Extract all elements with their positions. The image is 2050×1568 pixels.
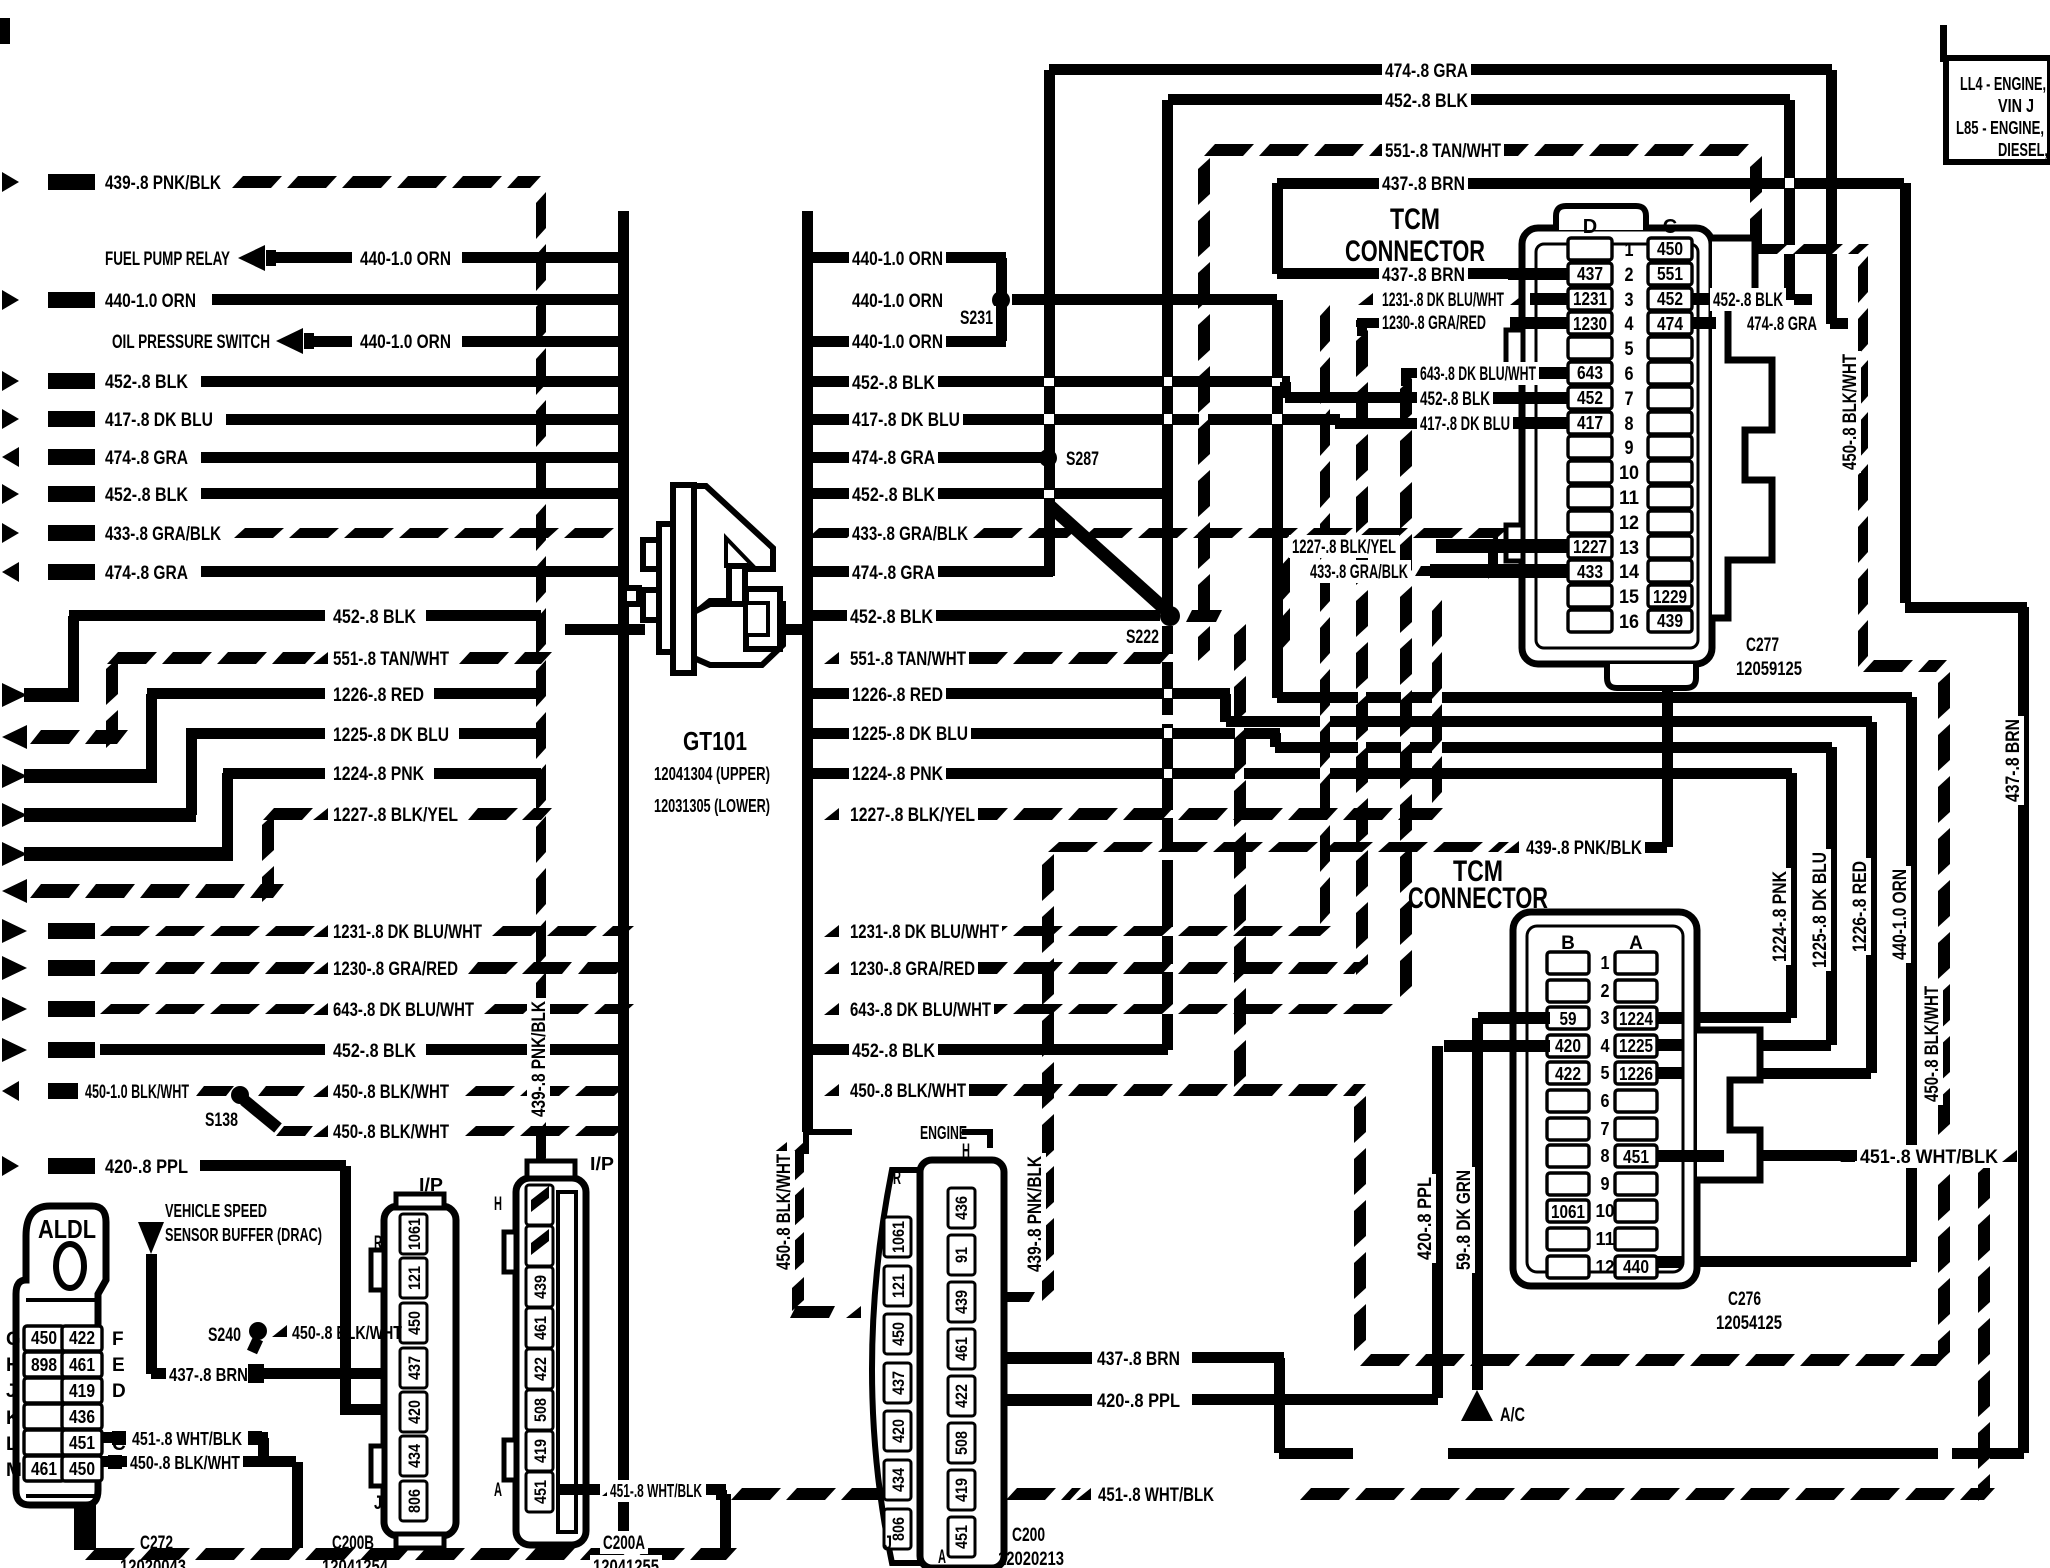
svg-text:5: 5 [1601,1063,1610,1083]
svg-text:A/C: A/C [1500,1405,1525,1426]
svg-text:439: 439 [531,1275,550,1299]
svg-text:417: 417 [1577,413,1603,433]
svg-text:452-.8 BLK: 452-.8 BLK [852,1041,935,1062]
svg-text:1226-.8 RED: 1226-.8 RED [852,685,943,706]
svg-text:461: 461 [952,1337,971,1361]
svg-text:11: 11 [1619,488,1639,509]
svg-text:I/P: I/P [590,1154,614,1174]
svg-text:474-.8 GRA: 474-.8 GRA [105,448,188,469]
svg-text:2: 2 [1625,265,1634,286]
svg-text:E: E [112,1355,125,1376]
svg-text:1061: 1061 [889,1221,908,1253]
svg-text:437: 437 [405,1356,424,1380]
svg-text:440-1.0 ORN: 440-1.0 ORN [360,249,451,270]
svg-text:R: R [893,1168,901,1189]
svg-text:452: 452 [1657,289,1683,309]
svg-text:433-.8 GRA/BLK: 433-.8 GRA/BLK [1310,562,1408,583]
svg-text:440-1.0 ORN: 440-1.0 ORN [1890,869,1911,960]
svg-text:VIN J: VIN J [1998,96,2034,116]
svg-text:440-1.0 ORN: 440-1.0 ORN [105,291,196,312]
svg-text:451-.8 WHT/BLK: 451-.8 WHT/BLK [1098,1485,1214,1506]
svg-text:450-.8 BLK/WHT: 450-.8 BLK/WHT [130,1453,240,1473]
svg-text:450: 450 [31,1328,57,1348]
svg-text:1230-.8 GRA/RED: 1230-.8 GRA/RED [1382,313,1486,334]
svg-text:S231: S231 [960,308,993,329]
svg-text:420: 420 [889,1419,908,1443]
svg-text:8: 8 [1625,414,1634,435]
svg-text:1225-.8 DK BLU: 1225-.8 DK BLU [1810,852,1831,968]
svg-text:1225: 1225 [1619,1036,1653,1056]
svg-text:1227-.8 BLK/YEL: 1227-.8 BLK/YEL [1292,537,1396,558]
svg-text:474-.8 GRA: 474-.8 GRA [1385,61,1468,82]
svg-text:422: 422 [1555,1064,1581,1084]
svg-text:12059125: 12059125 [1736,659,1802,680]
svg-text:12041255: 12041255 [593,1557,659,1568]
svg-text:12020043: 12020043 [120,1557,186,1568]
svg-text:13: 13 [1619,538,1639,559]
svg-text:461: 461 [31,1459,57,1479]
svg-text:437: 437 [889,1371,908,1395]
svg-text:OIL PRESSURE SWITCH: OIL PRESSURE SWITCH [112,332,270,353]
svg-text:437-.8 BRN: 437-.8 BRN [1382,265,1465,286]
svg-text:450: 450 [889,1322,908,1346]
svg-text:439-.8 PNK/BLK: 439-.8 PNK/BLK [1025,1156,1046,1272]
svg-text:420-.8 PPL: 420-.8 PPL [105,1157,188,1178]
svg-text:461: 461 [69,1355,95,1375]
svg-text:417-.8 DK BLU: 417-.8 DK BLU [105,410,213,431]
svg-text:G: G [6,1329,21,1350]
svg-text:L85 - ENGINE,: L85 - ENGINE, [1956,118,2044,138]
svg-text:420: 420 [405,1400,424,1424]
svg-text:1227-.8 BLK/YEL: 1227-.8 BLK/YEL [850,805,975,826]
svg-text:439-.8 PNK/BLK: 439-.8 PNK/BLK [529,1001,550,1117]
svg-text:5: 5 [1625,339,1634,360]
svg-text:437-.8 BRN: 437-.8 BRN [169,1365,248,1385]
svg-text:450-.8 BLK/WHT: 450-.8 BLK/WHT [333,1082,449,1103]
svg-text:450: 450 [1657,239,1683,259]
svg-text:121: 121 [889,1274,908,1298]
svg-text:437-.8 BRN: 437-.8 BRN [2003,719,2024,802]
svg-text:450-.8 BLK/WHT: 450-.8 BLK/WHT [1922,986,1943,1102]
svg-text:D: D [1583,216,1597,238]
svg-text:422: 422 [69,1328,95,1348]
svg-text:436: 436 [952,1196,971,1220]
svg-text:1230: 1230 [1573,314,1607,334]
svg-text:1224-.8 PNK: 1224-.8 PNK [333,764,424,785]
svg-text:1227: 1227 [1573,537,1607,557]
svg-text:1230-.8 GRA/RED: 1230-.8 GRA/RED [333,959,458,980]
svg-text:F: F [112,1329,124,1350]
svg-text:417-.8 DK BLU: 417-.8 DK BLU [1420,414,1510,435]
svg-text:643: 643 [1577,363,1603,383]
svg-text:450-.8 BLK/WHT: 450-.8 BLK/WHT [850,1081,966,1102]
svg-text:12031305 (LOWER): 12031305 (LOWER) [654,796,770,816]
svg-text:FUEL PUMP RELAY: FUEL PUMP RELAY [105,249,230,270]
svg-text:451: 451 [1623,1147,1649,1167]
svg-text:451: 451 [952,1525,971,1549]
svg-text:474-.8 GRA: 474-.8 GRA [105,563,188,584]
svg-text:452-.8 BLK: 452-.8 BLK [1713,290,1783,311]
svg-text:452-.8 BLK: 452-.8 BLK [1420,389,1490,410]
svg-text:6: 6 [1601,1091,1610,1111]
svg-text:H: H [962,1141,970,1162]
svg-text:7: 7 [1601,1119,1610,1139]
svg-text:422: 422 [952,1384,971,1408]
svg-text:420-.8 PPL: 420-.8 PPL [1415,1177,1436,1260]
svg-text:452-.8 BLK: 452-.8 BLK [852,485,935,506]
svg-text:437: 437 [1577,264,1603,284]
svg-text:59-.8 DK GRN: 59-.8 DK GRN [1454,1170,1475,1270]
svg-text:10: 10 [1596,1201,1615,1221]
svg-text:450-.8 BLK/WHT: 450-.8 BLK/WHT [1840,354,1861,470]
svg-text:474-.8 GRA: 474-.8 GRA [852,448,935,469]
svg-text:I/P: I/P [419,1175,443,1195]
svg-text:1224: 1224 [1619,1009,1653,1029]
svg-text:417-.8 DK BLU: 417-.8 DK BLU [852,410,960,431]
svg-text:9: 9 [1625,438,1634,459]
svg-text:LL4 - ENGINE,: LL4 - ENGINE, [1960,74,2046,94]
svg-text:643-.8 DK BLU/WHT: 643-.8 DK BLU/WHT [1420,364,1536,385]
svg-text:1224-.8 PNK: 1224-.8 PNK [1770,871,1791,962]
svg-text:S287: S287 [1066,449,1099,470]
svg-text:898: 898 [31,1355,57,1375]
svg-text:551-.8 TAN/WHT: 551-.8 TAN/WHT [1385,141,1501,162]
svg-text:C272: C272 [140,1533,173,1554]
svg-text:434: 434 [889,1468,908,1492]
svg-text:440-1.0 ORN: 440-1.0 ORN [852,332,943,353]
svg-text:11: 11 [1596,1229,1615,1249]
svg-text:450: 450 [69,1459,95,1479]
svg-text:J: J [884,1533,892,1554]
svg-text:16: 16 [1619,612,1639,633]
svg-text:451: 451 [531,1480,550,1504]
svg-text:1231: 1231 [1573,289,1607,309]
svg-text:2: 2 [1601,981,1610,1001]
svg-text:1231-.8 DK BLU/WHT: 1231-.8 DK BLU/WHT [1382,290,1504,311]
svg-text:S240: S240 [208,1325,241,1346]
svg-text:434: 434 [405,1444,424,1468]
svg-text:436: 436 [69,1407,95,1427]
svg-text:474-.8 GRA: 474-.8 GRA [852,563,935,584]
svg-text:551-.8 TAN/WHT: 551-.8 TAN/WHT [850,649,966,670]
svg-text:GT101: GT101 [683,726,747,756]
svg-text:1061: 1061 [405,1218,424,1250]
svg-text:59: 59 [1560,1009,1577,1029]
svg-text:643-.8 DK BLU/WHT: 643-.8 DK BLU/WHT [850,1000,991,1021]
svg-text:420-.8 PPL: 420-.8 PPL [1097,1391,1180,1412]
svg-text:8: 8 [1601,1146,1610,1166]
svg-text:121: 121 [405,1266,424,1290]
svg-text:C: C [112,1434,126,1455]
svg-text:TCM: TCM [1390,203,1440,236]
svg-text:1226-.8 RED: 1226-.8 RED [333,685,424,706]
svg-text:3: 3 [1601,1008,1610,1028]
svg-text:440-1.0 ORN: 440-1.0 ORN [852,249,943,270]
svg-text:91: 91 [952,1247,971,1263]
svg-text:6: 6 [1625,364,1634,385]
svg-text:1230-.8 GRA/RED: 1230-.8 GRA/RED [850,959,975,980]
svg-text:A: A [938,1547,946,1568]
svg-text:452-.8 BLK: 452-.8 BLK [852,373,935,394]
svg-text:419: 419 [952,1478,971,1502]
svg-text:4: 4 [1601,1036,1610,1056]
svg-text:1227-.8 BLK/YEL: 1227-.8 BLK/YEL [333,805,458,826]
svg-text:9: 9 [1601,1174,1610,1194]
svg-text:C276: C276 [1728,1289,1761,1310]
svg-text:433: 433 [1577,562,1603,582]
svg-text:1225-.8 DK BLU: 1225-.8 DK BLU [852,724,968,745]
svg-text:S138: S138 [205,1110,238,1131]
svg-text:452: 452 [1577,388,1603,408]
svg-text:474: 474 [1657,314,1683,334]
svg-text:L: L [6,1434,18,1455]
svg-text:440: 440 [1623,1257,1649,1277]
svg-text:1229: 1229 [1653,587,1687,607]
svg-text:439-.8 PNK/BLK: 439-.8 PNK/BLK [1526,838,1642,859]
svg-text:1226: 1226 [1619,1064,1653,1084]
svg-text:452-.8 BLK: 452-.8 BLK [105,485,188,506]
svg-text:K: K [6,1408,20,1429]
svg-text:508: 508 [531,1398,550,1422]
svg-text:J: J [374,1493,382,1514]
svg-text:440-1.0 ORN: 440-1.0 ORN [852,291,943,312]
svg-text:H: H [6,1355,20,1376]
svg-text:12041304 (UPPER): 12041304 (UPPER) [654,764,770,784]
svg-text:508: 508 [952,1431,971,1455]
svg-text:420: 420 [1555,1036,1581,1056]
svg-text:H: H [494,1194,502,1215]
svg-text:450: 450 [405,1311,424,1335]
svg-text:437-.8 BRN: 437-.8 BRN [1382,174,1465,195]
svg-text:R: R [374,1233,382,1254]
svg-text:433-.8 GRA/BLK: 433-.8 GRA/BLK [105,524,221,545]
svg-text:643-.8 DK BLU/WHT: 643-.8 DK BLU/WHT [333,1000,474,1021]
svg-text:440-1.0 ORN: 440-1.0 ORN [360,332,451,353]
svg-text:451: 451 [69,1433,95,1453]
svg-text:452-.8 BLK: 452-.8 BLK [105,372,188,393]
svg-text:SENSOR BUFFER (DRAC): SENSOR BUFFER (DRAC) [165,1225,322,1245]
svg-text:1231-.8 DK BLU/WHT: 1231-.8 DK BLU/WHT [850,922,999,943]
svg-text:12020213: 12020213 [998,1549,1064,1568]
svg-text:14: 14 [1619,562,1639,583]
svg-text:419: 419 [531,1439,550,1463]
svg-text:4: 4 [1625,314,1634,335]
svg-text:CONNECTOR: CONNECTOR [1345,235,1485,268]
svg-text:DIESEL,: DIESEL, [1998,140,2048,160]
svg-text:1: 1 [1601,953,1610,973]
svg-text:451-.8 WHT/BLK: 451-.8 WHT/BLK [132,1429,242,1449]
svg-text:10: 10 [1619,463,1639,484]
svg-text:C200B: C200B [332,1533,374,1554]
svg-text:ENGINE: ENGINE [920,1123,967,1143]
svg-text:1231-.8 DK BLU/WHT: 1231-.8 DK BLU/WHT [333,922,482,943]
svg-text:12: 12 [1619,513,1639,534]
svg-text:450-.8 BLK/WHT: 450-.8 BLK/WHT [292,1323,402,1343]
svg-text:VEHICLE SPEED: VEHICLE SPEED [165,1201,267,1221]
svg-text:452-.8 BLK: 452-.8 BLK [333,1041,416,1062]
svg-text:7: 7 [1625,389,1634,410]
svg-text:452-.8 BLK: 452-.8 BLK [333,607,416,628]
svg-text:806: 806 [405,1489,424,1513]
svg-text:439: 439 [1657,611,1683,631]
svg-text:450-1.0 BLK/WHT: 450-1.0 BLK/WHT [85,1082,189,1103]
svg-text:452-.8 BLK: 452-.8 BLK [850,607,933,628]
svg-text:J: J [6,1381,17,1402]
svg-text:474-.8 GRA: 474-.8 GRA [1747,314,1817,335]
svg-text:12: 12 [1596,1257,1615,1277]
svg-text:433-.8 GRA/BLK: 433-.8 GRA/BLK [852,524,968,545]
svg-text:3: 3 [1625,290,1634,311]
svg-text:1224-.8 PNK: 1224-.8 PNK [852,764,943,785]
svg-text:551: 551 [1657,264,1683,284]
svg-text:1225-.8 DK BLU: 1225-.8 DK BLU [333,725,449,746]
svg-text:D: D [112,1381,126,1402]
svg-text:ALDL: ALDL [38,1214,96,1244]
svg-text:439: 439 [952,1290,971,1314]
svg-text:419: 419 [69,1381,95,1401]
svg-text:M: M [6,1460,22,1481]
svg-text:439-.8 PNK/BLK: 439-.8 PNK/BLK [105,173,221,194]
svg-text:451-.8 WHT/BLK: 451-.8 WHT/BLK [610,1481,702,1501]
svg-text:422: 422 [531,1357,550,1381]
svg-text:C277: C277 [1746,635,1779,656]
svg-text:C200A: C200A [603,1533,645,1554]
svg-text:C200: C200 [1012,1525,1045,1546]
svg-text:12054125: 12054125 [1716,1313,1782,1334]
svg-text:461: 461 [531,1316,550,1340]
svg-text:A: A [494,1480,502,1501]
svg-text:451-.8 WHT/BLK: 451-.8 WHT/BLK [1860,1147,1998,1168]
svg-text:C: C [1663,216,1677,238]
svg-text:1061: 1061 [1551,1202,1585,1222]
svg-text:1: 1 [1625,240,1634,261]
svg-text:1226-.8 RED: 1226-.8 RED [1850,861,1871,952]
svg-text:437-.8 BRN: 437-.8 BRN [1097,1349,1180,1370]
svg-text:450-.8 BLK/WHT: 450-.8 BLK/WHT [333,1122,449,1143]
svg-text:CONNECTOR: CONNECTOR [1408,882,1548,915]
svg-text:15: 15 [1619,587,1639,608]
svg-text:450-.8 BLK/WHT: 450-.8 BLK/WHT [774,1154,795,1270]
svg-text:12041254: 12041254 [322,1557,388,1568]
svg-text:551-.8 TAN/WHT: 551-.8 TAN/WHT [333,649,449,670]
svg-text:S222: S222 [1126,627,1159,648]
svg-text:452-.8 BLK: 452-.8 BLK [1385,91,1468,112]
